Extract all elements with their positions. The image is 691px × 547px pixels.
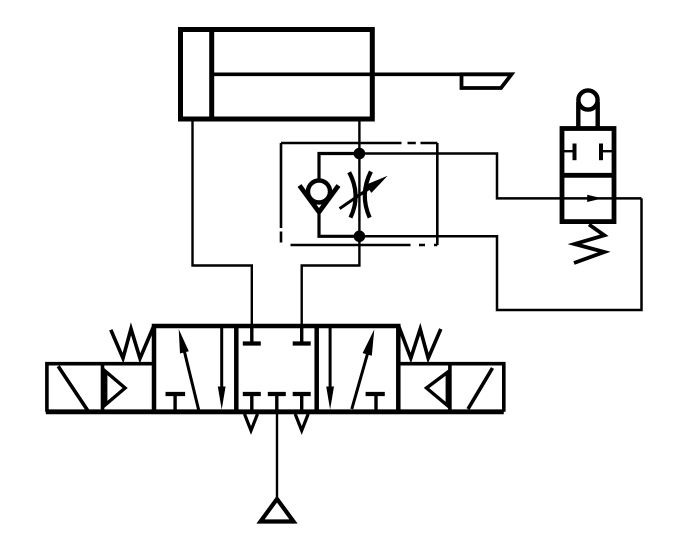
throttle valve right arc bbox=[365, 172, 371, 218]
left position blocked T bbox=[166, 392, 186, 396]
pressure source triangle bbox=[261, 499, 294, 522]
left position diagonal arrow bbox=[183, 347, 199, 411]
enclosure bottom edge bbox=[291, 244, 438, 247]
valve bottom rail bbox=[46, 409, 504, 414]
directional valve V2 main body bbox=[154, 326, 398, 412]
roller valve return spring bbox=[574, 225, 604, 264]
center position blocked ports bbox=[252, 326, 302, 343]
right pilot diagonal bbox=[468, 368, 493, 409]
right spring W bbox=[399, 326, 441, 359]
cam follower on rod end bbox=[462, 74, 512, 88]
node bottom junction bbox=[354, 231, 366, 243]
roller limit valve S1 body bbox=[562, 129, 614, 222]
left pilot air triangle bbox=[106, 372, 125, 405]
check valve ball bbox=[308, 181, 330, 203]
wire check/throttle bypass branch bbox=[319, 154, 359, 182]
enclosure right edge bbox=[436, 143, 439, 245]
wire cylinder rod port to flow control and valve port bbox=[302, 119, 360, 326]
flow path arrowhead bbox=[587, 195, 602, 202]
throttle valve left arc bbox=[349, 172, 355, 217]
throttle adjustment arrow bbox=[340, 188, 370, 209]
wire roller valve outlet return loop bbox=[359, 198, 641, 310]
left pilot box bbox=[47, 364, 154, 412]
left spring W bbox=[111, 326, 154, 359]
check valve seat bbox=[300, 186, 339, 213]
right pilot air triangle bbox=[427, 372, 448, 405]
right position vertical arrow bbox=[329, 328, 332, 390]
wire top junction to roller valve inlet and through valve bbox=[359, 154, 641, 199]
blocked port T left bbox=[573, 144, 577, 161]
wire supply port bbox=[276, 412, 278, 499]
enclosure left edge bbox=[280, 143, 283, 245]
enclosure flow control unit dash-dot box top edge bbox=[281, 142, 437, 145]
right position blocked T bbox=[366, 392, 385, 396]
right position diagonal arrow bbox=[352, 352, 368, 409]
wire cylinder cap port to valve port bbox=[193, 119, 252, 326]
exhaust left bbox=[245, 414, 258, 431]
node top junction bbox=[354, 148, 366, 160]
exhaust right bbox=[295, 414, 308, 431]
cylinder piston bbox=[209, 30, 214, 120]
cylinder piston rod bbox=[212, 72, 512, 76]
right pilot box bbox=[398, 364, 504, 412]
blocked port T right bbox=[599, 144, 603, 161]
cylinder C1 body bbox=[181, 30, 373, 120]
roller actuator bbox=[578, 90, 597, 109]
left position vertical arrow bbox=[220, 328, 223, 390]
left pilot diagonal bbox=[58, 366, 88, 410]
